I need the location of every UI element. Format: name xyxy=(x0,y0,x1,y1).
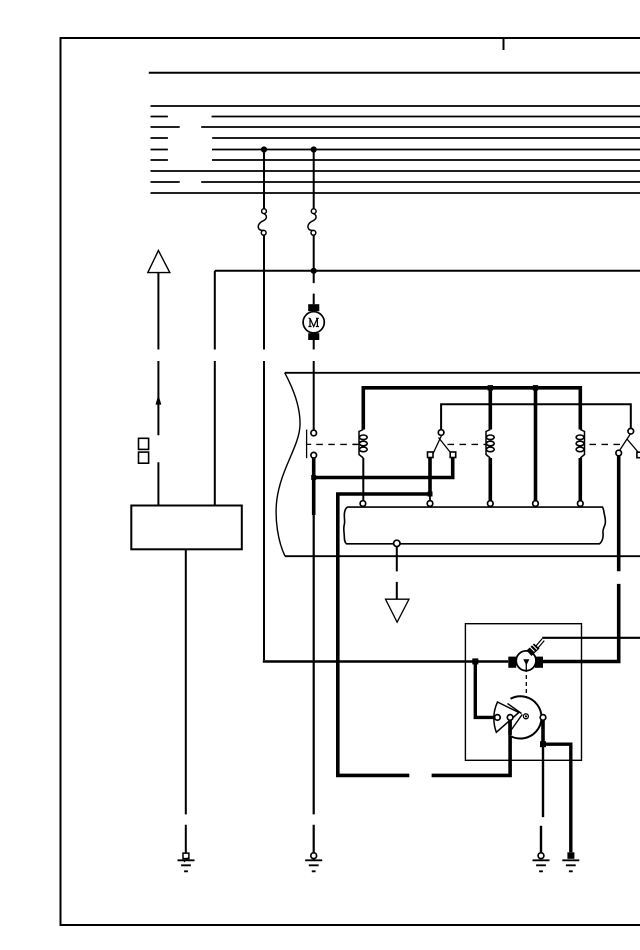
relay contact K3 xyxy=(616,428,640,457)
rotor terminal pin 2 xyxy=(507,715,513,721)
motor M1 xyxy=(303,304,324,340)
rotor terminal pin 1 xyxy=(495,715,501,721)
connector square upper xyxy=(139,438,149,449)
connector pin 5 xyxy=(578,501,584,507)
wire K1 output bold xyxy=(314,458,453,478)
wire F1 to ignition coil feed xyxy=(263,235,265,660)
wire horizontal rail y271 xyxy=(215,270,640,272)
fuse F1 xyxy=(258,209,266,235)
wire to output arrow xyxy=(396,547,398,599)
ground G2 xyxy=(305,853,322,872)
wire bus line 8 xyxy=(151,181,640,183)
connector pin 2 xyxy=(427,501,433,507)
wire coil L3 to connector xyxy=(578,458,582,501)
connector pin 1 xyxy=(360,501,366,507)
distributor box outline xyxy=(465,624,581,761)
wire bus line 4 xyxy=(151,137,640,139)
wire thin contact link xyxy=(441,404,631,430)
connector pin bottom xyxy=(394,540,400,546)
frame tick mark xyxy=(503,38,505,50)
rotor terminal pin 3 xyxy=(540,715,546,721)
node junction K1 xyxy=(311,475,316,480)
ground G1 xyxy=(178,853,195,871)
connector pin 3 xyxy=(488,501,494,507)
wire fuse 1 drop xyxy=(263,150,265,209)
wire junction to rotor xyxy=(475,661,494,717)
ground G3 xyxy=(533,853,550,872)
power arrow symbol xyxy=(148,251,170,273)
connector pin 4 xyxy=(533,501,539,507)
arrow direction marker xyxy=(156,395,162,405)
ignition coil T1 xyxy=(508,639,544,671)
node junction dot motor tap xyxy=(311,268,316,273)
wire fuse 2 drop xyxy=(313,150,315,209)
distributor rotor wedge xyxy=(494,702,522,732)
fuse F2 xyxy=(308,209,316,235)
connector square lower xyxy=(139,452,149,463)
wire motor to relay contact xyxy=(313,340,315,430)
wire coil L2 to connector xyxy=(488,458,492,501)
node junction dot F2 tap xyxy=(311,147,316,152)
wire K3 output bold xyxy=(543,456,619,662)
node junction K2 xyxy=(428,492,433,497)
wire rotor pin2 over wedge xyxy=(508,720,512,735)
ground G4 xyxy=(562,852,579,871)
rotor shaft circle xyxy=(523,714,528,719)
wire coil3 feed xyxy=(488,388,492,430)
mechanical link dashed xyxy=(316,443,625,445)
relay box bottom edge xyxy=(285,555,640,557)
node junction dot F1 tap xyxy=(261,147,266,152)
wire coil L1 to connector xyxy=(362,458,364,501)
relay connector strip xyxy=(344,507,606,544)
node junction coil3 xyxy=(488,385,493,390)
relay coil L3 xyxy=(576,430,584,459)
distributor body circle xyxy=(509,696,541,738)
relay box torn left edge xyxy=(276,373,300,556)
wire rail drop left xyxy=(214,271,216,506)
wire relay thick top bus xyxy=(363,388,580,430)
wire bus line 9 xyxy=(151,192,640,194)
relay box top edge xyxy=(285,372,640,374)
wire bus line 5 xyxy=(151,149,640,151)
wire box to ground G1 xyxy=(185,549,187,853)
wire K2 output bold xyxy=(338,458,430,776)
relay contact K2 xyxy=(428,430,456,458)
node junction center wire xyxy=(533,385,538,390)
wire top feed line xyxy=(149,72,640,74)
node junction distributor ground xyxy=(540,741,546,747)
wire bus line 7 xyxy=(151,170,640,172)
wire bus line 1 xyxy=(151,105,640,107)
relay coil L1 xyxy=(353,430,367,459)
wire K1 to ground path xyxy=(312,478,316,516)
output arrow symbol xyxy=(386,599,410,622)
wire coil HT output xyxy=(542,637,640,639)
component box (control unit) xyxy=(131,506,242,550)
wire K2 path to distributor xyxy=(432,720,511,775)
wire junction stub to connector xyxy=(429,494,431,501)
wire bus line 6 xyxy=(151,159,640,161)
wire bus line 3 xyxy=(151,126,640,128)
motor label M xyxy=(308,318,319,326)
wire bus line 2 xyxy=(151,116,640,118)
relay coil L2 xyxy=(486,430,494,459)
wire motor segment xyxy=(313,271,315,304)
wire arrow drop xyxy=(157,273,159,506)
wire center drop to connector xyxy=(534,388,538,501)
relay contact K1 xyxy=(306,430,317,459)
distributor rotor shaft dashed xyxy=(525,668,527,713)
wire to ground G4 xyxy=(543,744,571,852)
wire distributor output xyxy=(541,720,545,744)
wire F2 down to node xyxy=(313,235,315,271)
node junction coil feed xyxy=(472,658,478,664)
